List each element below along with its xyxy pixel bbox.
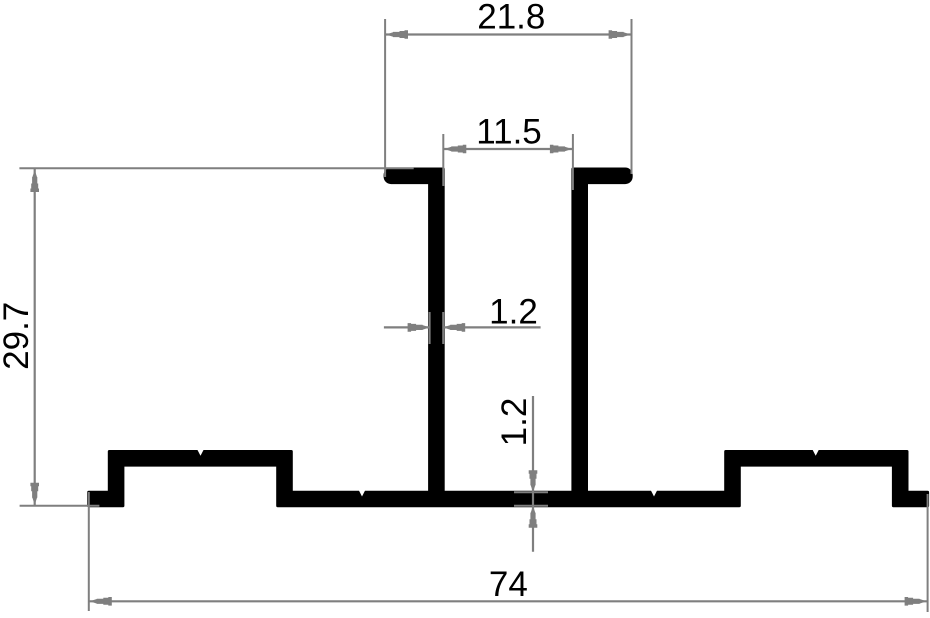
dimension 1.2 wall lines: [384, 323, 541, 332]
dimension 21.8 extension lines: [385, 19, 631, 177]
svg-text:29.7: 29.7: [0, 302, 36, 370]
profile outline (aluminium extrusion cross-section): [89, 169, 928, 506]
dimension 21.8 line: [386, 30, 631, 39]
dimension 1.2 base text (rotated): [495, 398, 534, 447]
dimension 74 extension lines: [89, 492, 928, 612]
dimension 74 text: [489, 565, 528, 604]
svg-text:1.2: 1.2: [489, 293, 538, 332]
notch artifact left bump top: [197, 450, 203, 456]
svg-text:21.8: 21.8: [477, 0, 545, 37]
dimension 11.5 line: [443, 145, 573, 154]
dimension 29.7 text (rotated): [0, 302, 36, 370]
dimension 1.2 base line: [529, 396, 538, 552]
svg-text:74: 74: [489, 565, 528, 604]
notch artifact base right: [651, 490, 657, 496]
dimension 29.7 extension lines: [19, 168, 413, 506]
dimension 21.8 text: [477, 0, 545, 37]
dimension 29.7 line: [30, 169, 39, 506]
notch artifact base left: [359, 490, 365, 496]
dimension 1.2 base ticks: [514, 492, 548, 506]
notch artifact right bump top: [813, 450, 819, 456]
dimension 1.2 wall text: [489, 293, 538, 332]
dimension 11.5 text: [476, 113, 542, 152]
svg-text:11.5: 11.5: [476, 113, 542, 152]
dimension 11.5 extension lines: [443, 134, 573, 190]
dimension 74 line: [89, 597, 928, 606]
svg-text:1.2: 1.2: [495, 398, 534, 447]
dimension 1.2 wall ticks: [430, 312, 444, 344]
